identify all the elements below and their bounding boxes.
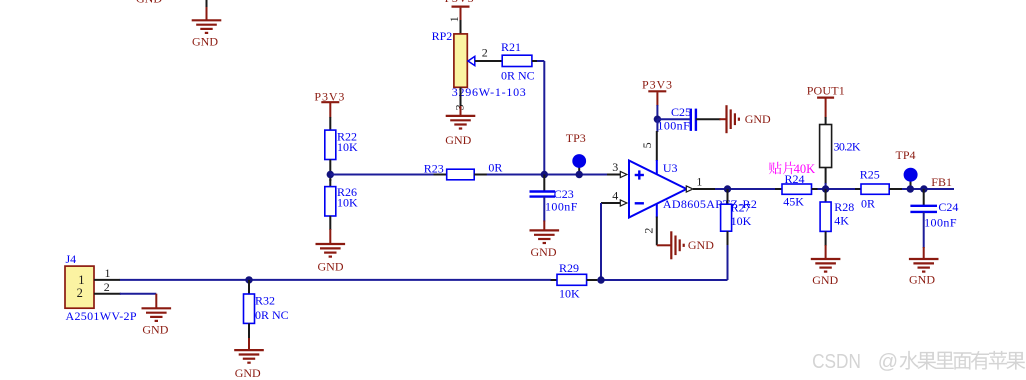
ground (right of C25) — [696, 105, 771, 133]
svg-text:100nF: 100nF — [657, 118, 690, 132]
node (R24/R28/30.2K junction) — [822, 185, 829, 192]
svg-text:GND: GND — [812, 273, 838, 287]
svg-text:10K: 10K — [731, 214, 752, 228]
svg-text:4: 4 — [612, 188, 618, 202]
pin 1 of J4 — [94, 266, 120, 280]
resistor R27 10K — [721, 189, 752, 231]
svg-text:GND: GND — [445, 133, 471, 147]
potentiometer RP2 3296W-1-103 — [432, 29, 526, 99]
wire (J4 pin 2 to ground) — [120, 294, 157, 309]
resistor R24 45K — [775, 172, 819, 209]
svg-text:2: 2 — [104, 280, 110, 294]
node (pin 5 / C25 junction) — [654, 116, 661, 123]
svg-text:GND: GND — [745, 112, 771, 126]
power P3V3 (above U3) — [642, 77, 672, 119]
wire (pin 1 output) — [686, 175, 776, 193]
power POUT1 — [807, 83, 845, 117]
ground (below R32) — [234, 323, 264, 380]
svg-text:0R: 0R — [488, 161, 502, 175]
wire (J4 pin 1 to R29) — [120, 279, 552, 281]
svg-text:R28: R28 — [834, 200, 854, 214]
pin 3 of RP2 — [452, 87, 466, 110]
svg-text:P3V3: P3V3 — [642, 77, 672, 91]
svg-text:C25: C25 — [671, 105, 691, 119]
svg-text:40K: 40K — [794, 162, 816, 176]
resistor R29 10K — [550, 261, 597, 301]
resistor 30.2K (POUT1 pull-up) — [820, 117, 861, 189]
ground (top left) — [192, 7, 222, 48]
svg-text:0R NC: 0R NC — [501, 68, 535, 82]
wire (R25 to FB1) — [902, 188, 954, 190]
ground (below R28) — [811, 231, 841, 287]
ground (below R26) — [316, 216, 346, 274]
svg-text:3: 3 — [452, 104, 466, 110]
wire (pin 3) — [607, 160, 627, 178]
svg-text:10K: 10K — [337, 140, 358, 154]
resistor R28 4K — [820, 189, 854, 231]
svg-text:R23: R23 — [424, 162, 444, 176]
capacitor C24 100nF — [910, 189, 958, 230]
svg-text:R32: R32 — [255, 294, 275, 308]
svg-text:U3: U3 — [663, 161, 678, 175]
pin 2 of RP2 (wiper) wire to R21 — [475, 46, 503, 61]
resistor R22 10K — [325, 117, 358, 160]
resistor R23 0R — [424, 161, 503, 180]
ground (below C24) — [909, 212, 939, 287]
svg-text:4K: 4K — [834, 213, 849, 227]
svg-text:30.2K: 30.2K — [834, 140, 861, 154]
svg-text:3296W-1-103: 3296W-1-103 — [452, 85, 526, 99]
svg-text:2: 2 — [482, 46, 488, 60]
svg-text:A2501WV-2P: A2501WV-2P — [66, 309, 137, 323]
svg-text:R29: R29 — [559, 261, 579, 275]
wire (divider to op-amp pin 3) — [330, 174, 607, 176]
wire (R21 to input node) — [532, 61, 544, 175]
svg-text:R27: R27 — [731, 201, 751, 215]
svg-text:0R NC: 0R NC — [255, 308, 289, 322]
svg-text:GND: GND — [688, 238, 714, 252]
connector J4 A2501WV-2P — [65, 252, 137, 323]
ground (below C23) — [530, 197, 560, 260]
node (output / R27) — [724, 185, 731, 192]
svg-text:1: 1 — [78, 273, 84, 287]
test point TP3 — [566, 131, 586, 178]
svg-text:GND: GND — [235, 366, 261, 380]
svg-text:R21: R21 — [501, 40, 521, 54]
node (C23 tap) — [541, 171, 548, 178]
node (feedback junction) — [597, 276, 604, 283]
svg-text:FB1: FB1 — [931, 175, 952, 189]
pin 2 of U3 — [642, 204, 657, 245]
svg-text:10K: 10K — [559, 287, 580, 301]
svg-text:0R: 0R — [861, 197, 875, 211]
svg-text:TP4: TP4 — [896, 148, 916, 162]
ground (op-amp pin 2) — [657, 231, 714, 259]
ground (below RP2) — [445, 106, 475, 147]
svg-text:1: 1 — [696, 175, 702, 189]
svg-text:1: 1 — [447, 16, 461, 22]
resistor R26 10K — [325, 179, 358, 216]
svg-text:45K: 45K — [783, 194, 804, 208]
capacitor C25 100nF — [657, 105, 696, 132]
svg-text:R25: R25 — [860, 168, 880, 182]
svg-text:1: 1 — [105, 266, 111, 280]
wire (feedback R27 to R29 node and pin 4) — [601, 203, 728, 280]
svg-text:2: 2 — [77, 286, 83, 300]
power P3V3 (above R22) — [314, 89, 344, 117]
wire (pin 4 from feedback) — [601, 188, 627, 206]
svg-text:@: @ — [878, 351, 898, 373]
svg-text:GND: GND — [318, 260, 344, 274]
wire (from top edge to ground) — [206, 0, 208, 8]
svg-text:GND: GND — [909, 273, 935, 287]
pin 2 of J4 — [94, 280, 121, 294]
power P3V3 (above RP2, clipped at top edge) — [445, 0, 474, 20]
node (divider junction) — [327, 160, 334, 182]
svg-text:CSDN: CSDN — [812, 351, 861, 373]
test point TP4 — [896, 148, 918, 193]
svg-text:POUT1: POUT1 — [807, 83, 845, 97]
watermark CSDN — [812, 351, 1025, 373]
node (R32 tap) — [245, 276, 252, 283]
svg-text:P3V3: P3V3 — [445, 0, 474, 5]
op-amp U3 AD8605ARTZ-R2 — [629, 161, 757, 218]
ground (J4 pin 2) — [142, 308, 172, 336]
svg-text:GND: GND — [142, 323, 168, 337]
svg-text:RP2: RP2 — [432, 29, 453, 43]
pin 5 of U3 — [640, 119, 658, 174]
resistor R32 0R NC — [244, 280, 289, 324]
wire (R24 to R25 node) — [818, 188, 856, 190]
svg-text:GND: GND — [192, 34, 218, 48]
svg-text:10K: 10K — [337, 196, 358, 210]
svg-text:100nF: 100nF — [545, 200, 578, 214]
node (C24 tap) — [920, 185, 927, 192]
svg-text:5: 5 — [640, 142, 654, 148]
svg-text:3: 3 — [612, 160, 618, 174]
svg-text:C24: C24 — [938, 200, 958, 214]
pin 1 of RP2 — [447, 16, 461, 34]
svg-text:GND: GND — [136, 0, 162, 6]
svg-text:J4: J4 — [66, 252, 77, 266]
svg-text:GND: GND — [531, 245, 557, 259]
svg-text:2: 2 — [642, 228, 656, 234]
resistor R25 0R — [855, 168, 906, 211]
resistor R21 0R NC — [501, 40, 535, 82]
svg-text:100nF: 100nF — [924, 216, 957, 230]
capacitor C23 100nF — [530, 175, 578, 214]
svg-text:TP3: TP3 — [566, 131, 586, 145]
label 贴片40K (chip 40K) — [769, 162, 815, 176]
